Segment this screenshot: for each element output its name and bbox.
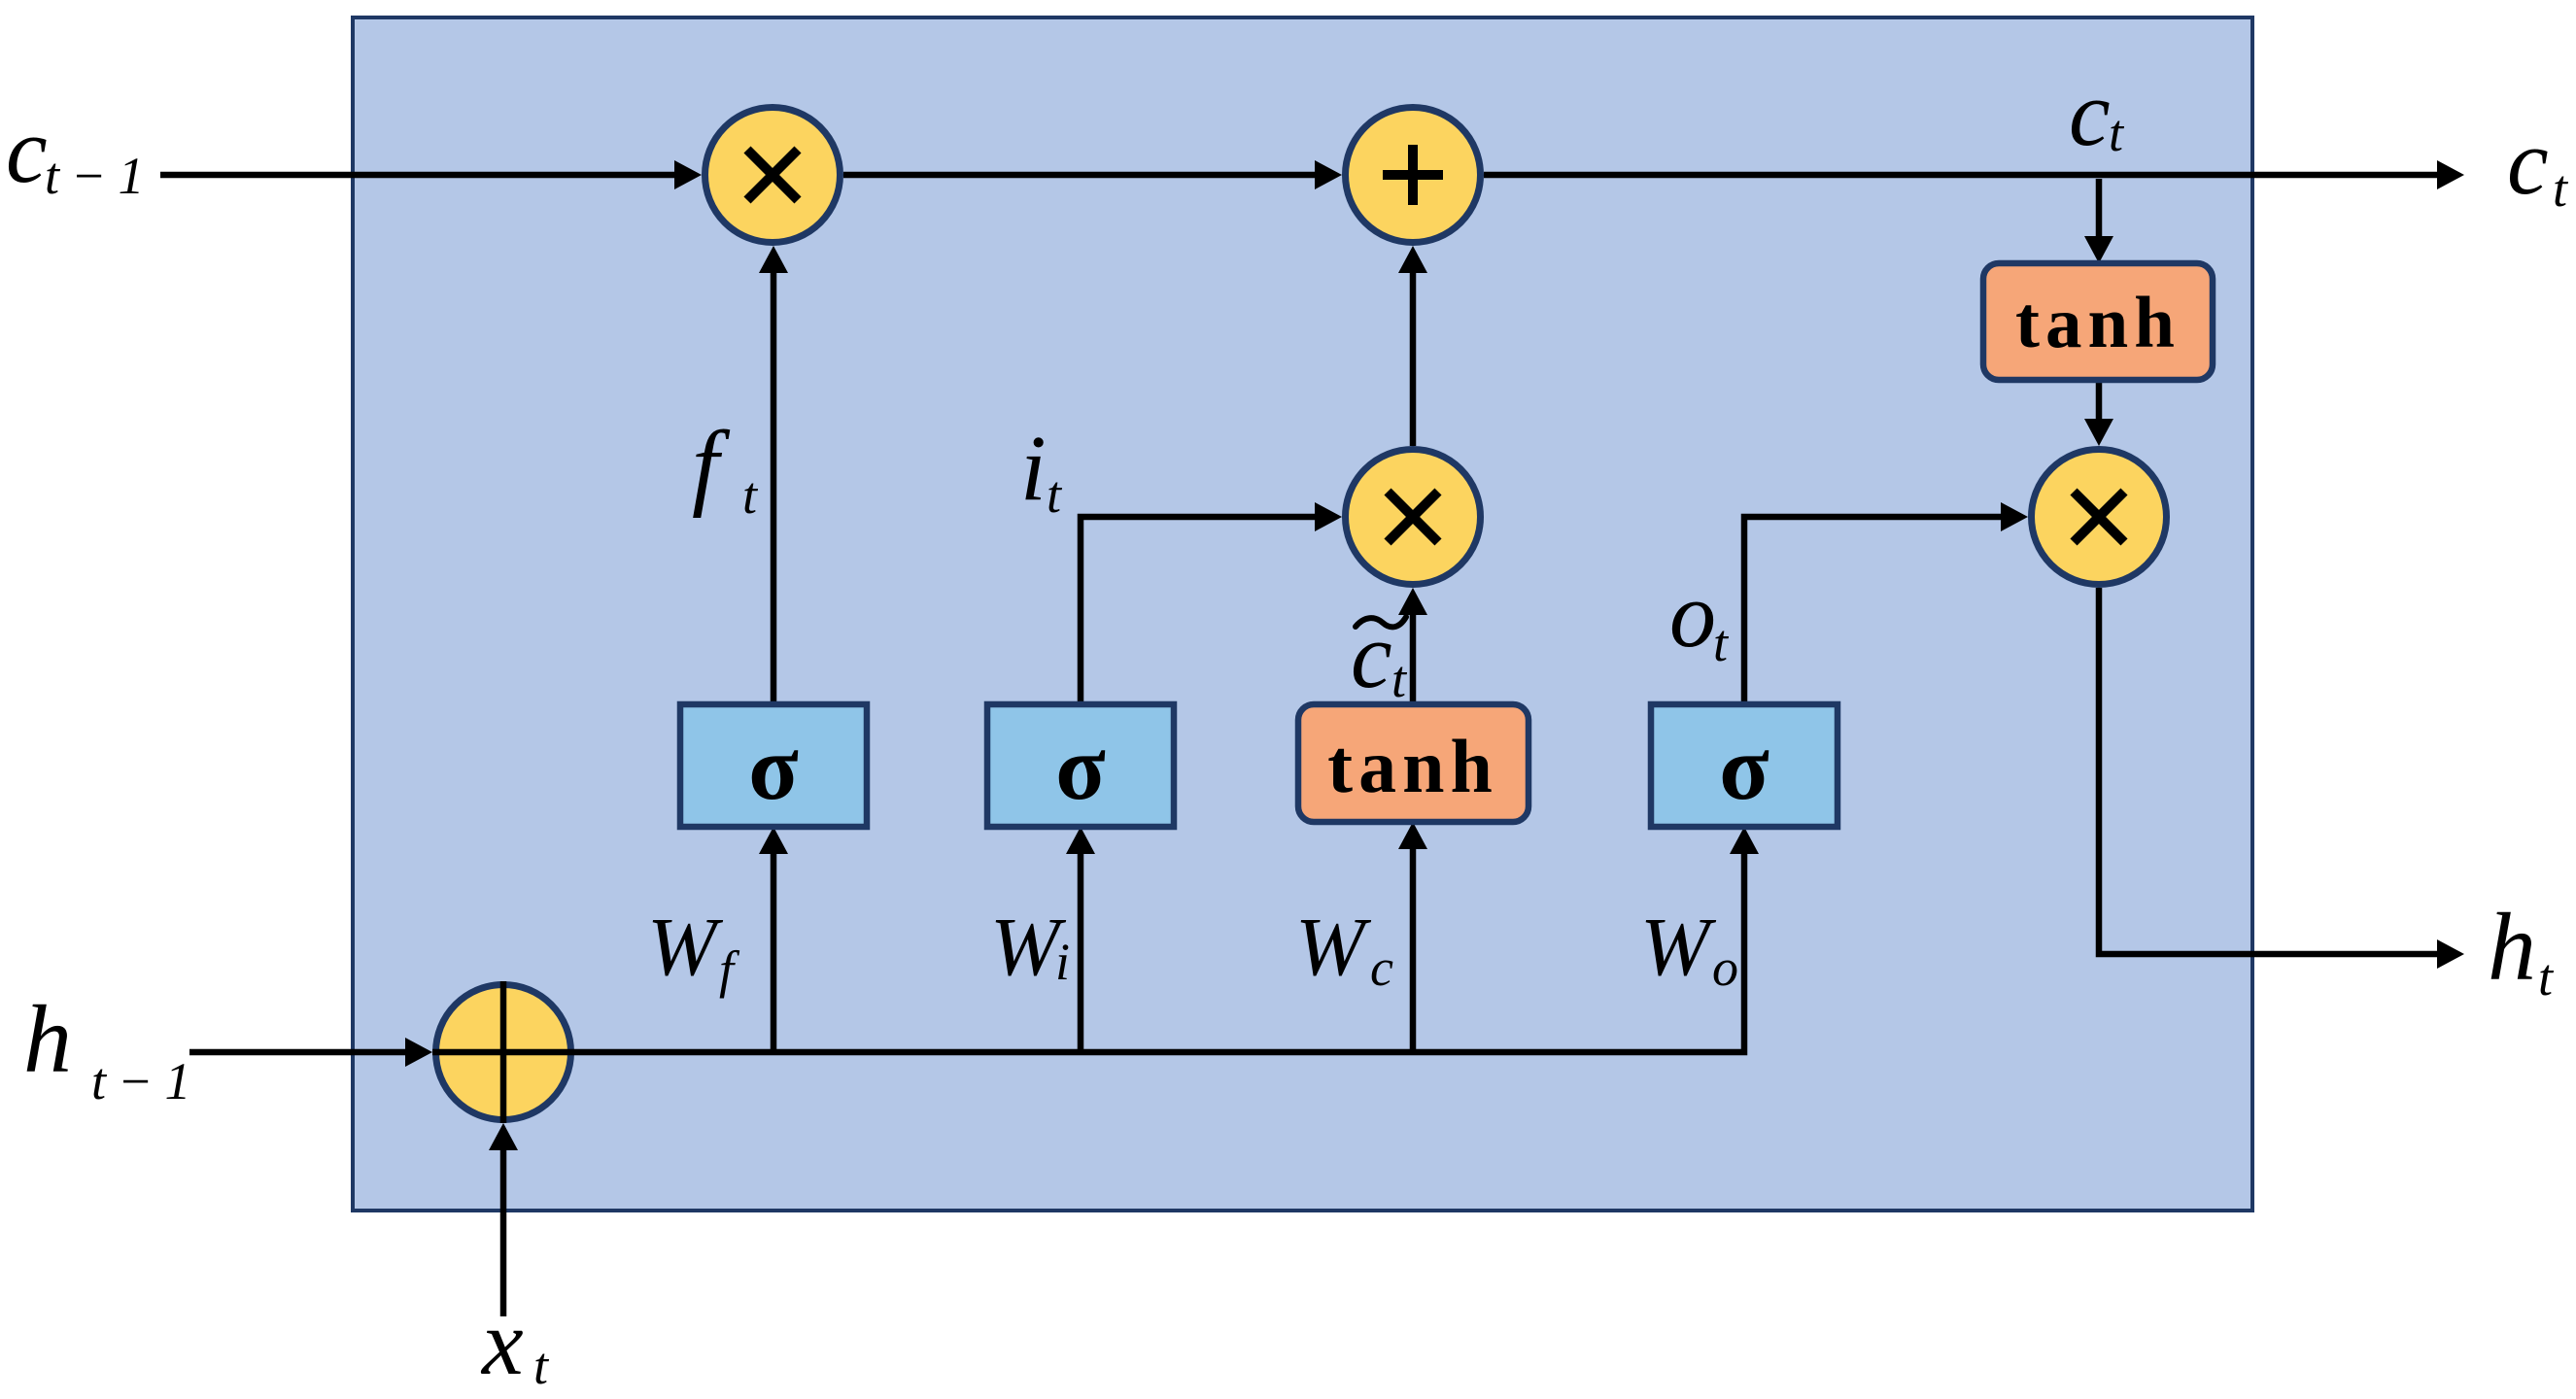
label c_t output [2507,110,2569,218]
wire c_t down into tanh [2084,179,2113,263]
wire W_f branch up into sigma1 [759,827,788,1052]
label h_t [2488,893,2555,1007]
svg-text:o: o [1712,938,1738,997]
svg-text:o: o [1669,563,1716,666]
label h_{t-1} [23,985,202,1110]
svg-text:i: i [1055,933,1070,991]
svg-text:t: t [1047,465,1063,524]
svg-text:W: W [1295,900,1372,993]
label x_t [480,1290,550,1395]
svg-text:h: h [23,985,72,1093]
sigma box 1 (forget gate) [680,704,867,827]
svg-text:c: c [6,98,48,202]
multiply gate (right) [2032,450,2167,585]
wire tanh down into right multiply [2084,380,2113,446]
wire i_t elbow into middle multiply [1081,502,1342,704]
svg-text:tanh: tanh [1327,724,1498,808]
wire W_c branch up into middle tanh [1398,822,1427,1052]
add gate (top) [1346,108,1481,243]
label W_i [990,900,1070,993]
tanh box (candidate) [1298,704,1528,822]
wire c_{t-1} into multiply gate [160,160,702,189]
wire x_t up into concat gate [489,1123,518,1316]
wire add gate to c_t output [1484,160,2464,189]
wire middle multiply up into add gate [1398,246,1427,446]
wire o_t elbow into right multiply [1744,502,2028,704]
multiply gate (top left) [705,108,841,243]
tanh box (right output) [1983,263,2213,380]
svg-text:t−1: t−1 [45,147,155,205]
LSTM cell body [353,17,2252,1211]
svg-text:c: c [2069,61,2111,165]
svg-text:W: W [647,900,724,993]
svg-text:t: t [1391,650,1408,708]
label c_{t-1} [6,98,155,205]
svg-text:σ: σ [1719,716,1769,819]
svg-text:tanh: tanh [2015,283,2181,363]
multiply gate (middle) [1346,450,1481,585]
label c_t inner [2069,61,2125,165]
svg-text:W: W [1640,900,1717,993]
svg-text:c: c [2507,110,2549,214]
wire right multiply down and out to h_t [2099,588,2464,969]
svg-text:t: t [2109,104,2125,162]
wire f_t up into top multiply [759,246,788,704]
label o_t [1669,563,1730,672]
svg-text:σ: σ [748,716,799,819]
label W_f [647,900,740,999]
svg-text:t: t [533,1337,550,1395]
label W_c [1295,900,1393,997]
svg-text:t: t [742,466,759,525]
svg-text:t: t [1713,614,1730,672]
svg-text:c: c [1351,603,1392,707]
svg-text:t: t [2553,159,2569,218]
svg-text:σ: σ [1055,716,1106,819]
wire tanh up into middle multiply [1398,588,1427,704]
svg-text:i: i [1020,416,1047,520]
wire h_{t-1} into concat gate [189,1038,432,1067]
concat gate (bottom left) [432,981,574,1123]
label W_o [1640,900,1738,997]
sigma box 3 (output gate) [1651,704,1838,827]
wire W_i branch up into sigma2 [1066,827,1095,1052]
sigma box 2 (input gate) [987,704,1174,827]
svg-text:x: x [480,1290,524,1394]
wire multiply to add gate [843,160,1342,189]
svg-text:t: t [2538,948,2555,1007]
label i_t [1020,416,1063,524]
wire h line with W_o corner up into sigma3 [503,827,1759,1052]
svg-text:c: c [1370,938,1393,997]
label c~_t (candidate) [1351,603,1408,708]
label f_t [692,411,759,525]
svg-text:t−1: t−1 [91,1052,202,1110]
svg-text:h: h [2488,893,2536,1001]
